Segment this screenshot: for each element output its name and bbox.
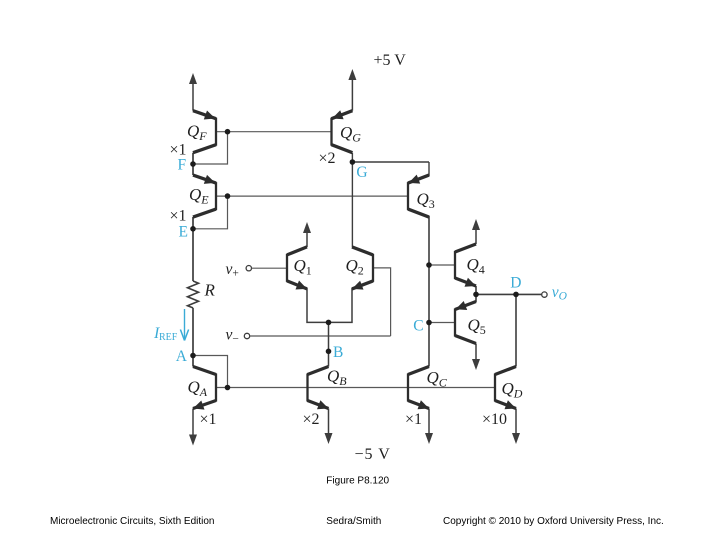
svg-text:vO: vO xyxy=(552,284,568,303)
svg-text:REF: REF xyxy=(159,332,178,343)
svg-text:Copyright © 2010 by Oxford Uni: Copyright © 2010 by Oxford University Pr… xyxy=(443,516,664,527)
svg-text:×2: ×2 xyxy=(319,150,336,167)
svg-text:+5 V: +5 V xyxy=(374,52,407,69)
svg-text:Q3: Q3 xyxy=(417,190,435,212)
svg-text:v+: v+ xyxy=(226,261,239,280)
svg-text:QE: QE xyxy=(189,185,209,207)
svg-text:QF: QF xyxy=(187,122,207,144)
svg-text:×1: ×1 xyxy=(200,411,217,428)
svg-text:×2: ×2 xyxy=(303,411,320,428)
svg-text:QC: QC xyxy=(427,368,448,390)
svg-text:−5 V: −5 V xyxy=(355,446,391,463)
svg-text:D: D xyxy=(510,274,521,291)
svg-text:Sedra/Smith: Sedra/Smith xyxy=(326,516,381,527)
svg-text:Q2: Q2 xyxy=(346,256,364,278)
svg-text:×10: ×10 xyxy=(482,411,507,428)
svg-text:E: E xyxy=(179,223,188,240)
svg-text:×1: ×1 xyxy=(405,411,422,428)
svg-text:QA: QA xyxy=(188,378,208,400)
svg-text:v−: v− xyxy=(226,327,239,346)
svg-text:Q5: Q5 xyxy=(468,316,486,338)
svg-text:×1: ×1 xyxy=(170,208,187,225)
svg-text:B: B xyxy=(333,344,343,361)
svg-text:Q4: Q4 xyxy=(467,255,485,277)
svg-text:R: R xyxy=(204,281,216,300)
svg-text:Figure P8.120: Figure P8.120 xyxy=(326,476,389,487)
svg-text:G: G xyxy=(356,164,367,181)
svg-text:C: C xyxy=(413,318,423,335)
svg-text:QB: QB xyxy=(327,367,347,389)
svg-text:QD: QD xyxy=(502,379,523,401)
svg-text:Microelectronic Circuits, Sixt: Microelectronic Circuits, Sixth Edition xyxy=(50,516,215,527)
svg-text:Q1: Q1 xyxy=(294,256,312,278)
svg-text:A: A xyxy=(176,348,188,365)
svg-text:F: F xyxy=(178,157,187,174)
svg-text:QG: QG xyxy=(340,123,361,145)
